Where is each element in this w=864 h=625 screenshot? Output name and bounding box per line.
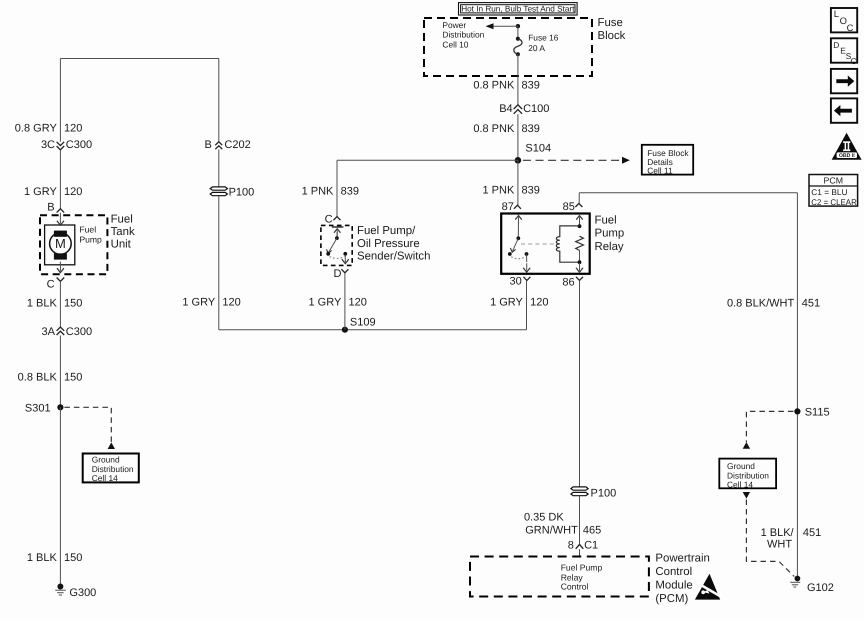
svg-text:3C: 3C (41, 139, 55, 151)
svg-text:S301: S301 (25, 402, 51, 414)
svg-text:Fuse 16: Fuse 16 (528, 33, 559, 43)
svg-text:0.8 BLK/WHT: 0.8 BLK/WHT (727, 297, 795, 309)
svg-text:839: 839 (522, 123, 540, 135)
svg-text:120: 120 (349, 296, 367, 308)
svg-text:1 GRY: 1 GRY (182, 296, 215, 308)
svg-text:C100: C100 (523, 103, 549, 115)
svg-text:20 A: 20 A (528, 43, 545, 53)
svg-text:C: C (325, 213, 333, 225)
svg-text:Unit: Unit (111, 238, 132, 250)
svg-text:0.8 PNK: 0.8 PNK (473, 123, 515, 135)
svg-text:Powertrain: Powertrain (655, 553, 709, 565)
svg-text:839: 839 (522, 184, 540, 196)
svg-text:1 PNK: 1 PNK (483, 184, 515, 196)
svg-text:Fuel: Fuel (595, 214, 617, 226)
svg-text:Tank: Tank (111, 226, 135, 238)
svg-text:C202: C202 (224, 139, 250, 151)
svg-text:1 BLK: 1 BLK (27, 298, 58, 310)
svg-text:C: C (47, 279, 55, 291)
svg-text:GRN/WHT: GRN/WHT (525, 524, 578, 536)
svg-text:Cell 11: Cell 11 (647, 166, 673, 176)
svg-text:120: 120 (64, 186, 82, 198)
svg-text:G300: G300 (69, 587, 96, 599)
svg-text:C300: C300 (66, 139, 92, 151)
svg-text:Fuel: Fuel (79, 225, 96, 235)
svg-text:Power: Power (442, 20, 466, 30)
svg-text:Oil Pressure: Oil Pressure (357, 238, 420, 250)
svg-text:C1 = BLU: C1 = BLU (811, 187, 847, 197)
svg-text:Module: Module (655, 579, 692, 591)
svg-text:85: 85 (563, 201, 575, 213)
svg-text:1 GRY: 1 GRY (24, 186, 57, 198)
svg-text:Relay: Relay (595, 241, 624, 253)
svg-text:C: C (851, 56, 857, 66)
svg-text:Fuel Pump/: Fuel Pump/ (357, 225, 416, 237)
svg-text:120: 120 (64, 123, 82, 135)
svg-text:C: C (847, 22, 854, 33)
svg-text:0.8 BLK: 0.8 BLK (18, 371, 58, 383)
svg-text:1 PNK: 1 PNK (302, 185, 334, 197)
svg-text:D: D (833, 40, 839, 50)
svg-text:87: 87 (502, 201, 514, 213)
svg-text:120: 120 (530, 296, 548, 308)
svg-text:Control: Control (655, 566, 692, 578)
svg-text:Control: Control (561, 582, 589, 592)
svg-text:M: M (55, 236, 66, 251)
svg-text:Sender/Switch: Sender/Switch (357, 251, 430, 263)
svg-text:Ground: Ground (727, 461, 755, 471)
svg-text:S115: S115 (805, 407, 830, 419)
svg-text:P100: P100 (591, 488, 617, 500)
svg-text:0.35 DK: 0.35 DK (524, 511, 564, 523)
svg-text:B4: B4 (499, 103, 512, 115)
svg-text:0.8 PNK: 0.8 PNK (473, 80, 515, 92)
svg-text:Distribution: Distribution (442, 30, 484, 40)
svg-text:839: 839 (522, 80, 540, 92)
svg-text:C1: C1 (584, 540, 598, 552)
svg-text:Cell 14: Cell 14 (727, 479, 753, 489)
svg-text:C2 = CLEAR: C2 = CLEAR (811, 197, 857, 207)
svg-text:OBD II: OBD II (839, 153, 855, 159)
svg-text:Hot In Run, Bulb Test And Star: Hot In Run, Bulb Test And Start (461, 5, 575, 14)
svg-text:L: L (834, 8, 839, 19)
svg-text:451: 451 (802, 297, 820, 309)
svg-text:P100: P100 (229, 187, 255, 199)
svg-text:B: B (204, 139, 211, 151)
svg-text:465: 465 (583, 524, 601, 536)
svg-text:1 GRY: 1 GRY (490, 296, 523, 308)
svg-text:Fuse: Fuse (598, 17, 623, 29)
svg-text:Block: Block (598, 30, 626, 42)
svg-text:WHT: WHT (767, 538, 792, 550)
svg-text:Fuel: Fuel (111, 213, 133, 225)
svg-text:S104: S104 (525, 142, 551, 154)
svg-text:Pump: Pump (79, 234, 102, 244)
svg-text:PCM: PCM (824, 176, 844, 186)
svg-text:150: 150 (64, 371, 82, 383)
svg-text:3A: 3A (42, 326, 56, 338)
svg-text:451: 451 (803, 527, 821, 539)
svg-text:120: 120 (222, 296, 240, 308)
svg-text:150: 150 (64, 298, 82, 310)
svg-text:8: 8 (568, 540, 574, 552)
svg-text:150: 150 (64, 552, 82, 564)
svg-text:Cell 10: Cell 10 (442, 39, 468, 49)
svg-text:Cell 14: Cell 14 (92, 473, 118, 483)
svg-text:D: D (333, 268, 341, 280)
svg-text:Pump: Pump (595, 228, 625, 240)
svg-text:G102: G102 (807, 582, 834, 594)
svg-text:30: 30 (510, 276, 522, 288)
svg-text:C300: C300 (66, 326, 92, 338)
svg-text:B: B (47, 201, 54, 213)
svg-text:(PCM): (PCM) (655, 593, 688, 605)
svg-text:0.8 GRY: 0.8 GRY (15, 123, 58, 135)
svg-text:Fuel Pump: Fuel Pump (561, 563, 603, 573)
svg-text:839: 839 (341, 185, 359, 197)
svg-text:1 GRY: 1 GRY (308, 296, 341, 308)
svg-text:86: 86 (562, 276, 574, 288)
svg-text:1 BLK/: 1 BLK/ (761, 527, 795, 539)
svg-text:S109: S109 (350, 317, 376, 329)
svg-text:1 BLK: 1 BLK (27, 552, 58, 564)
